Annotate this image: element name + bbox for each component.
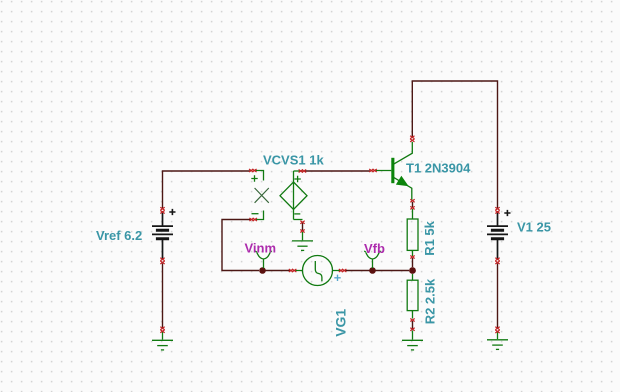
voltage pin Vinm	[255, 251, 272, 268]
pin cross T1 collector	[410, 136, 414, 142]
svg-text:V1 25: V1 25	[517, 220, 551, 235]
svg-text:R2 2.5k: R2 2.5k	[422, 278, 437, 324]
pin cross X bottom	[249, 218, 257, 221]
wire VG1 to junction	[345, 270, 409, 272]
pin cross ground Vref	[160, 327, 164, 333]
battery V1	[487, 210, 511, 259]
svg-text:R1 5k: R1 5k	[422, 220, 437, 255]
svg-text:Vref 6.2: Vref 6.2	[96, 228, 142, 243]
pin cross V1 top	[495, 207, 499, 213]
junction node R1 R2	[409, 267, 416, 274]
wire R2 to ground	[412, 321, 414, 329]
ground below V1	[487, 332, 508, 349]
svg-text:VCVS1 1k: VCVS1 1k	[263, 153, 324, 168]
voltage pin Vfb	[364, 251, 381, 268]
VCVS1 output diamond	[280, 171, 307, 220]
ground below Vref	[152, 332, 173, 350]
svg-text:Vinm: Vinm	[245, 240, 277, 255]
pin cross diamond bottom	[300, 221, 304, 233]
pin cross R1 bottom	[410, 256, 414, 259]
generator VG1	[295, 256, 341, 286]
wire V1 bottom to ground	[497, 264, 499, 328]
resistor R1	[407, 209, 418, 256]
battery Vref	[152, 209, 176, 259]
transistor Q T1	[375, 142, 413, 200]
wire diamond output to T1 base	[305, 170, 371, 172]
pin cross VG1 left	[289, 269, 297, 272]
wire emitter to R1	[412, 202, 414, 207]
pin cross T1 base	[369, 169, 377, 172]
wire collector top loop to V1	[412, 81, 497, 208]
pin cross Vref bottom	[160, 258, 164, 264]
VCVS1 input port X	[251, 171, 268, 220]
pin cross VG1 right	[339, 269, 347, 272]
pin cross V1 bottom	[495, 258, 499, 264]
pin cross X top	[249, 169, 257, 172]
svg-text:VG1: VG1	[333, 309, 349, 337]
pin cross Vref top	[160, 207, 164, 213]
wire Vinm node to VG1	[266, 270, 291, 272]
pin cross R2 bottom	[410, 319, 414, 331]
svg-text:T1 2N3904: T1 2N3904	[406, 161, 471, 176]
pin cross T1 emitter and R1 top	[410, 199, 414, 209]
node Vinm	[259, 267, 266, 274]
node Vfb	[369, 267, 376, 274]
wire R1 to junction	[412, 258, 414, 267]
svg-text:Vfb: Vfb	[364, 241, 385, 256]
wire Vref top to X input	[163, 171, 251, 208]
wire X input bottom loop to Vinm node	[222, 220, 259, 271]
wire VCVS minus to ground	[302, 223, 304, 231]
pin cross diamond top	[299, 170, 307, 173]
ground below VCVS1	[292, 232, 313, 250]
resistor R2	[407, 274, 418, 319]
ground below R2	[402, 331, 423, 350]
pin cross ground V1	[495, 327, 499, 333]
wire Vref bottom to ground	[162, 264, 164, 328]
